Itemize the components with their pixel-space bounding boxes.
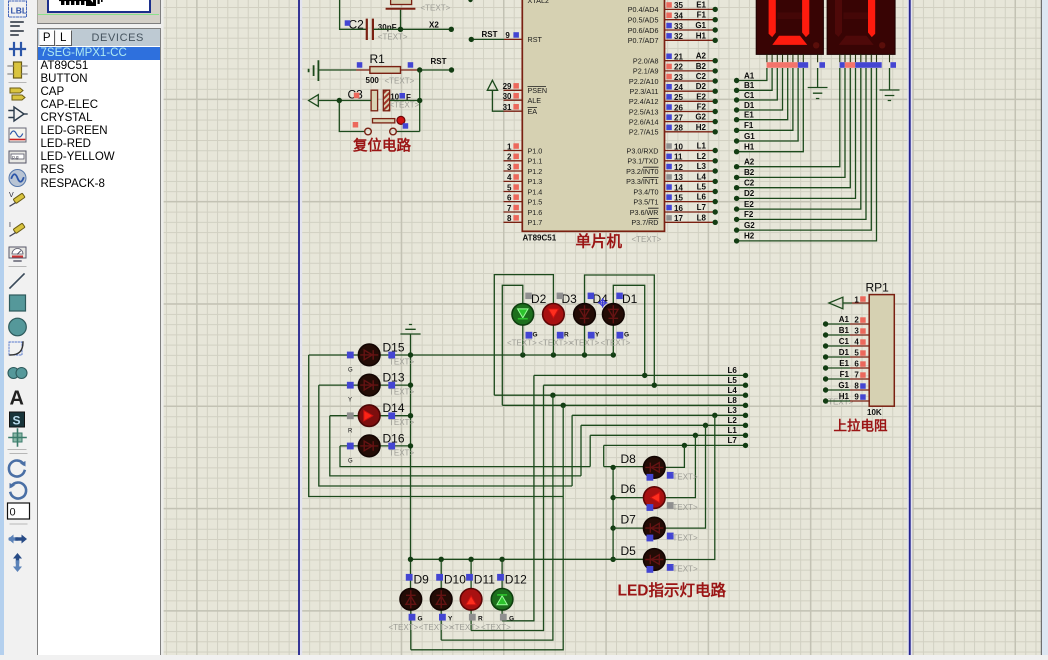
wire D3 anode loop	[494, 275, 553, 396]
terminal arrow RP1 pin1	[829, 297, 852, 309]
U1 right pin stubs P0/P2/P3	[665, 9, 716, 222]
svg-text:<TEXT>: <TEXT>	[385, 77, 415, 86]
LED D2 (green lit)	[512, 304, 534, 326]
svg-text:8: 8	[507, 214, 512, 223]
icon buses	[10, 88, 25, 100]
svg-text:P1.1: P1.1	[528, 157, 543, 166]
svg-text:<TEXT>: <TEXT>	[450, 623, 480, 632]
svg-text:P2.1/A9: P2.1/A9	[633, 67, 659, 76]
svg-text:L5: L5	[728, 376, 738, 385]
svg-text:10: 10	[674, 142, 683, 151]
wire D14 row and staircase	[330, 416, 581, 476]
svg-text:33: 33	[674, 22, 683, 31]
svg-text:G1: G1	[744, 132, 755, 141]
svg-text:4: 4	[507, 173, 512, 182]
svg-text:P2.4/A12: P2.4/A12	[629, 97, 659, 106]
DS1 segment wires to labels A1-H1	[737, 68, 804, 152]
wire RST to pin 9	[471, 38, 504, 40]
svg-text:<TEXT>>: <TEXT>>	[538, 339, 573, 348]
svg-text:1: 1	[507, 142, 512, 151]
scrollbar strip	[1042, 0, 1048, 655]
svg-text:R: R	[564, 332, 569, 339]
svg-text:500: 500	[366, 76, 380, 85]
wire net L8 row	[502, 404, 745, 406]
svg-text:F1: F1	[744, 121, 754, 130]
svg-text:L1: L1	[697, 142, 707, 151]
svg-text:L7: L7	[728, 436, 738, 445]
U1 left pin names	[528, 35, 548, 227]
svg-text:7: 7	[507, 204, 512, 213]
wire R1 to RST label	[420, 69, 452, 71]
svg-text:L7: L7	[697, 203, 707, 212]
wire from XTAL1 area down to C2	[340, 0, 367, 29]
wire D8 row left	[604, 466, 644, 468]
svg-text:E1: E1	[744, 111, 754, 120]
wire risers L6/L5/L4/L8 down to bottom leds	[411, 375, 563, 649]
sheet border left	[300, 0, 302, 655]
icon 2d circle	[9, 318, 27, 336]
svg-text:L4: L4	[728, 386, 738, 395]
svg-text:L3: L3	[728, 406, 738, 415]
svg-text:L6: L6	[697, 193, 707, 202]
wire D6 right riser	[665, 435, 695, 497]
svg-text:P3.5/T1: P3.5/T1	[633, 197, 658, 206]
svg-text:E1: E1	[839, 359, 849, 368]
svg-text:V: V	[9, 192, 14, 199]
svg-text:上拉电阻: 上拉电阻	[834, 418, 888, 434]
svg-text:3: 3	[507, 163, 512, 172]
svg-text:G: G	[533, 332, 538, 339]
svg-text:RST: RST	[482, 30, 498, 39]
wire net L4 row	[494, 394, 745, 396]
wire C2 to X2 node	[373, 28, 451, 30]
svg-text:P1.2: P1.2	[528, 167, 543, 176]
svg-text:<TEXT>: <TEXT>	[601, 339, 631, 348]
resistor pack RP1 RESPACK-8	[869, 295, 894, 407]
LED D16	[358, 435, 380, 457]
svg-text:26: 26	[674, 103, 683, 112]
preview of selected device (7seg, cut off)	[59, 0, 145, 6]
LED D15	[358, 344, 380, 366]
DS1 pin markers	[767, 62, 825, 68]
svg-text:I: I	[9, 222, 11, 229]
svg-text:22: 22	[674, 63, 683, 72]
DS2 pin stubs	[840, 54, 890, 62]
svg-text:9: 9	[505, 31, 510, 40]
svg-text:24: 24	[674, 83, 683, 92]
svg-text:35: 35	[674, 1, 683, 10]
icon gate	[9, 107, 27, 121]
svg-text:P3.2/INT0: P3.2/INT0	[626, 167, 658, 176]
svg-text:2: 2	[507, 153, 512, 162]
svg-text:D1: D1	[622, 292, 638, 306]
icon x-mirror	[8, 535, 27, 544]
icon marker	[9, 429, 26, 446]
LED D3 (red lit)	[543, 304, 565, 326]
icon tape recorder	[9, 151, 26, 163]
svg-text:TEXT>: TEXT>	[673, 565, 698, 574]
svg-text:Y: Y	[348, 398, 352, 404]
svg-text:E2: E2	[696, 92, 706, 101]
svg-text:G2: G2	[695, 113, 706, 122]
sheet border right	[907, 0, 912, 655]
wire net L1 row	[590, 434, 745, 436]
wire D1 anode loop	[613, 285, 644, 375]
svg-text:AT89C51: AT89C51	[523, 233, 557, 242]
svg-text:D1: D1	[839, 348, 850, 357]
svg-text:D10: D10	[444, 572, 466, 586]
svg-text:L3: L3	[697, 162, 707, 171]
svg-text:P1.3: P1.3	[528, 177, 543, 186]
svg-text:PSEN: PSEN	[528, 86, 548, 95]
net labels L6 L5 L4 L8 L3 L2 L1 L7	[728, 366, 738, 445]
IC U1 AT89C51 body	[522, 0, 664, 231]
icon instrument	[9, 247, 26, 261]
svg-text:H2: H2	[744, 232, 755, 241]
svg-text:9: 9	[854, 392, 859, 401]
svg-text:15: 15	[674, 193, 683, 202]
crystal X1 (cut off at top)	[386, 0, 451, 13]
wire D8-D5 left rail	[612, 467, 614, 560]
wire net L6 row	[534, 374, 746, 376]
LED D4	[574, 304, 596, 326]
junctions on rail y355	[408, 352, 413, 357]
svg-text:P0.7/AD7: P0.7/AD7	[628, 36, 659, 45]
stub at top edge	[468, 0, 472, 2]
7-seg display DS1 showing 0	[756, 0, 823, 54]
DS2 pin markers	[840, 62, 896, 68]
U1 left pin numbers	[503, 82, 512, 223]
icon graph	[9, 128, 26, 142]
wire D10/D11/D12 top risers	[441, 559, 502, 588]
wire risers L3/L2/L1/L7 down to staircase rows	[572, 415, 604, 486]
svg-text:A2: A2	[696, 52, 707, 61]
svg-text:C2: C2	[349, 18, 365, 32]
svg-text:D2: D2	[531, 292, 547, 306]
svg-text:TEXT>: TEXT>	[389, 357, 414, 366]
svg-text:A2: A2	[744, 158, 755, 167]
svg-text:P3.6/WR: P3.6/WR	[630, 208, 659, 217]
svg-text:<TEXT>: <TEXT>	[570, 339, 600, 348]
svg-text:F2: F2	[697, 103, 707, 112]
svg-text:P3.1/TXD: P3.1/TXD	[627, 157, 658, 166]
svg-text:8: 8	[854, 381, 859, 390]
svg-text:A1: A1	[744, 71, 755, 80]
svg-text:RST: RST	[528, 35, 543, 44]
ground under DS2	[880, 68, 900, 101]
svg-text:F1: F1	[840, 370, 850, 379]
svg-text:D9: D9	[414, 572, 430, 586]
LED D10	[430, 589, 452, 611]
wire D7 right riser	[665, 425, 706, 528]
svg-text:0: 0	[10, 507, 16, 519]
svg-text:p.g: p.g	[12, 155, 19, 160]
svg-text:11: 11	[674, 153, 683, 162]
svg-text:复位电路: 复位电路	[352, 137, 411, 155]
icon y-mirror	[13, 553, 22, 572]
svg-text:P2.5/A13: P2.5/A13	[629, 107, 659, 116]
LED D9	[400, 589, 422, 611]
svg-text:P1.5: P1.5	[528, 197, 543, 206]
LED D14 (lit)	[358, 405, 380, 427]
wire D8 right riser	[665, 445, 684, 467]
svg-text:D8: D8	[621, 452, 637, 466]
svg-text:TEXT>: TEXT>	[673, 473, 698, 482]
wire D6 left	[613, 497, 643, 499]
svg-text:P1.7: P1.7	[528, 218, 543, 227]
svg-text:3: 3	[854, 326, 859, 335]
wire cathode rail vertical	[410, 355, 412, 589]
svg-text:<TEXT>: <TEXT>	[390, 100, 420, 109]
wire D13 row and staircase	[319, 385, 572, 486]
wire net L2 row	[581, 424, 746, 426]
U1 right pin names	[626, 5, 658, 227]
LED D7	[644, 517, 666, 539]
icon script	[11, 22, 23, 35]
svg-text:P3.4/T0: P3.4/T0	[633, 187, 658, 196]
svg-text:14: 14	[674, 183, 683, 192]
icon voltage probe	[9, 192, 25, 206]
separator	[9, 266, 26, 268]
svg-text:H2: H2	[696, 123, 707, 132]
svg-text:R: R	[478, 616, 483, 623]
svg-text:TEXT>: TEXT>	[389, 418, 414, 427]
svg-text:L1: L1	[728, 426, 738, 435]
junctions at right pin ends	[713, 7, 718, 225]
wire crystal stub	[400, 10, 402, 30]
svg-text:7: 7	[854, 370, 859, 379]
svg-text:30pF: 30pF	[378, 23, 397, 32]
svg-text:<TEXT>: <TEXT>	[481, 623, 511, 632]
svg-text:D2: D2	[696, 82, 707, 91]
svg-text:<TEXT>: <TEXT>	[507, 339, 537, 348]
svg-text:17: 17	[674, 214, 683, 223]
svg-text:B2: B2	[696, 62, 707, 71]
svg-text:EA: EA	[528, 107, 538, 116]
svg-text:L2: L2	[728, 416, 738, 425]
wire D15 staircase	[309, 355, 564, 497]
svg-text:L4: L4	[697, 172, 707, 181]
LED D1	[603, 304, 625, 326]
svg-text:D6: D6	[621, 482, 637, 496]
svg-text:P2.6/A14: P2.6/A14	[629, 117, 659, 126]
svg-text:P1.4: P1.4	[528, 187, 543, 196]
svg-text:L8: L8	[697, 213, 707, 222]
icon 2d box	[10, 295, 26, 311]
svg-text:ALE: ALE	[528, 96, 542, 105]
capacitor C3 electrolytic	[348, 87, 420, 110]
svg-text:P0.5/AD5: P0.5/AD5	[628, 16, 659, 25]
separator	[9, 82, 26, 84]
svg-text:B1: B1	[839, 326, 850, 335]
svg-text:P1.6: P1.6	[528, 208, 543, 217]
svg-text:G: G	[348, 368, 353, 374]
svg-text:5: 5	[507, 183, 512, 192]
wire LED common rail y355	[309, 354, 614, 356]
svg-text:G1: G1	[838, 381, 849, 390]
svg-text:H1: H1	[839, 392, 850, 401]
svg-text:P1.0: P1.0	[528, 146, 543, 155]
svg-text:P3.3/INT1: P3.3/INT1	[626, 177, 658, 186]
svg-text:L2: L2	[697, 152, 707, 161]
svg-text:23: 23	[674, 73, 683, 82]
svg-text:P0.4/AD4: P0.4/AD4	[628, 5, 659, 14]
DS1 pin stubs	[767, 54, 818, 62]
svg-text:G2: G2	[744, 221, 755, 230]
svg-text:D12: D12	[505, 572, 527, 586]
svg-text:F1: F1	[697, 11, 707, 20]
LED D12 (green lit)	[491, 589, 513, 611]
ground (reset)	[309, 60, 356, 81]
wire D2 anode loop	[502, 285, 523, 405]
wire bottom rail y559	[409, 558, 643, 560]
svg-text:34: 34	[674, 12, 683, 21]
svg-text:B2: B2	[744, 168, 755, 177]
input terminal (reset row)	[309, 95, 340, 107]
svg-text:Y: Y	[595, 332, 600, 339]
icon 2d arc	[9, 342, 23, 355]
icon 2d line	[10, 274, 24, 288]
svg-text:G1: G1	[695, 21, 706, 30]
7-seg display DS2 showing 1	[827, 0, 895, 54]
svg-text:<TEXT>: <TEXT>	[378, 32, 408, 41]
svg-text:D11: D11	[474, 572, 495, 586]
svg-text:P0.6/AD6: P0.6/AD6	[628, 26, 659, 35]
terminal arrow PSEN/ALE/EA	[487, 80, 503, 111]
svg-text:TEXT>: TEXT>	[673, 533, 698, 542]
wire D16 row and staircase	[340, 446, 590, 467]
svg-text:H1: H1	[744, 143, 755, 152]
svg-text:R1: R1	[370, 52, 386, 66]
U1 right net labels	[695, 0, 706, 222]
ground above LED rail	[400, 325, 420, 356]
svg-text:12: 12	[674, 163, 683, 172]
svg-text:TEXT>: TEXT>	[389, 448, 414, 457]
svg-text:E2: E2	[744, 200, 754, 209]
wire C3 row	[339, 100, 419, 102]
separator	[10, 523, 27, 525]
wire net L5 row	[544, 384, 746, 386]
svg-text:G: G	[348, 459, 353, 465]
wire reset node vertical	[419, 70, 421, 132]
svg-text:13: 13	[674, 173, 683, 182]
svg-text:P2.3/A11: P2.3/A11	[629, 87, 658, 96]
svg-text:TEXT>: TEXT>	[673, 503, 698, 512]
svg-text:G: G	[509, 616, 514, 623]
svg-text:<TEXT>: <TEXT>	[389, 623, 419, 632]
svg-text:Y: Y	[448, 616, 453, 623]
svg-text:X2: X2	[429, 21, 439, 30]
LED D8	[644, 457, 666, 479]
svg-text:27: 27	[674, 113, 683, 122]
DS2 segment wires to labels A2-H2	[737, 68, 877, 241]
svg-text:6: 6	[854, 359, 859, 368]
separator double	[8, 450, 27, 454]
svg-text:30: 30	[503, 92, 512, 101]
svg-text:TEXT>: TEXT>	[389, 388, 414, 397]
svg-text:D7: D7	[621, 513, 637, 527]
icon component	[8, 62, 27, 78]
LED D13	[358, 374, 380, 396]
wire D4 anode loop	[585, 275, 655, 385]
svg-text:P2.2/A10: P2.2/A10	[629, 77, 659, 86]
svg-text:P3.0/RXD: P3.0/RXD	[627, 146, 659, 155]
svg-text:LED指示灯电路: LED指示灯电路	[618, 581, 727, 600]
svg-text:<TEXT>: <TEXT>	[632, 235, 662, 244]
svg-text:2: 2	[854, 315, 859, 324]
icon label LBL	[9, 1, 27, 17]
left mode toolbar	[4, 0, 31, 655]
svg-text:B1: B1	[744, 81, 755, 90]
svg-text:H1: H1	[696, 31, 707, 40]
svg-text:P2.7/A15: P2.7/A15	[629, 128, 659, 137]
icon generator	[9, 170, 26, 187]
origin marker near D4	[598, 298, 608, 308]
svg-text:R: R	[348, 428, 353, 434]
svg-text:RST: RST	[431, 57, 447, 66]
svg-text:P3.7/RD: P3.7/RD	[631, 218, 658, 227]
svg-text:C1: C1	[839, 337, 850, 346]
svg-text:E1: E1	[696, 0, 706, 9]
LED D5	[644, 549, 666, 571]
svg-text:10K: 10K	[867, 408, 882, 417]
svg-text:XTAL2: XTAL2	[528, 0, 549, 5]
wire net L7 row	[604, 444, 746, 446]
svg-text:6: 6	[507, 193, 512, 202]
canvas right border	[1041, 0, 1042, 655]
wire net L3 row	[572, 414, 745, 416]
window left edge	[0, 0, 4, 655]
svg-text:D3: D3	[562, 292, 578, 306]
svg-text:单片机: 单片机	[576, 232, 623, 251]
icon rotate ccw	[11, 483, 27, 499]
svg-text:RP1: RP1	[866, 281, 890, 295]
svg-text:16: 16	[674, 204, 683, 213]
svg-text:C2: C2	[696, 72, 707, 81]
RP1 pins 2-9	[826, 324, 850, 401]
svg-text:A1: A1	[839, 315, 850, 324]
svg-text:C1: C1	[744, 91, 755, 100]
LED D11 (red lit)	[460, 589, 482, 611]
resistor R1	[356, 52, 420, 85]
icon rotate cw	[9, 461, 25, 477]
capacitor C2	[345, 18, 408, 42]
svg-text:21: 21	[674, 53, 683, 62]
svg-text:D2: D2	[744, 189, 755, 198]
svg-text:D1: D1	[744, 101, 755, 110]
icon 2d closed path	[8, 368, 27, 379]
svg-text:G: G	[418, 616, 423, 623]
wire D5 right riser	[665, 415, 715, 559]
svg-text:S: S	[13, 414, 21, 428]
svg-text:L5: L5	[697, 183, 707, 192]
junctions on L rows	[550, 373, 748, 448]
svg-text:L8: L8	[728, 396, 738, 405]
svg-text:LBL: LBL	[11, 6, 28, 16]
icon current probe	[9, 222, 25, 236]
svg-text:<TEXT>: <TEXT>	[421, 4, 451, 13]
svg-text:C2: C2	[744, 179, 755, 188]
rotation angle box	[8, 503, 30, 519]
icon wire label	[10, 43, 25, 55]
svg-text:32: 32	[674, 32, 683, 41]
svg-text:28: 28	[674, 124, 683, 133]
svg-text:A: A	[10, 388, 24, 410]
svg-text:P2.0/A8: P2.0/A8	[633, 57, 659, 66]
svg-text:29: 29	[503, 82, 512, 91]
svg-text:<TEXT>>: <TEXT>>	[419, 623, 454, 632]
svg-text:4: 4	[854, 337, 859, 346]
